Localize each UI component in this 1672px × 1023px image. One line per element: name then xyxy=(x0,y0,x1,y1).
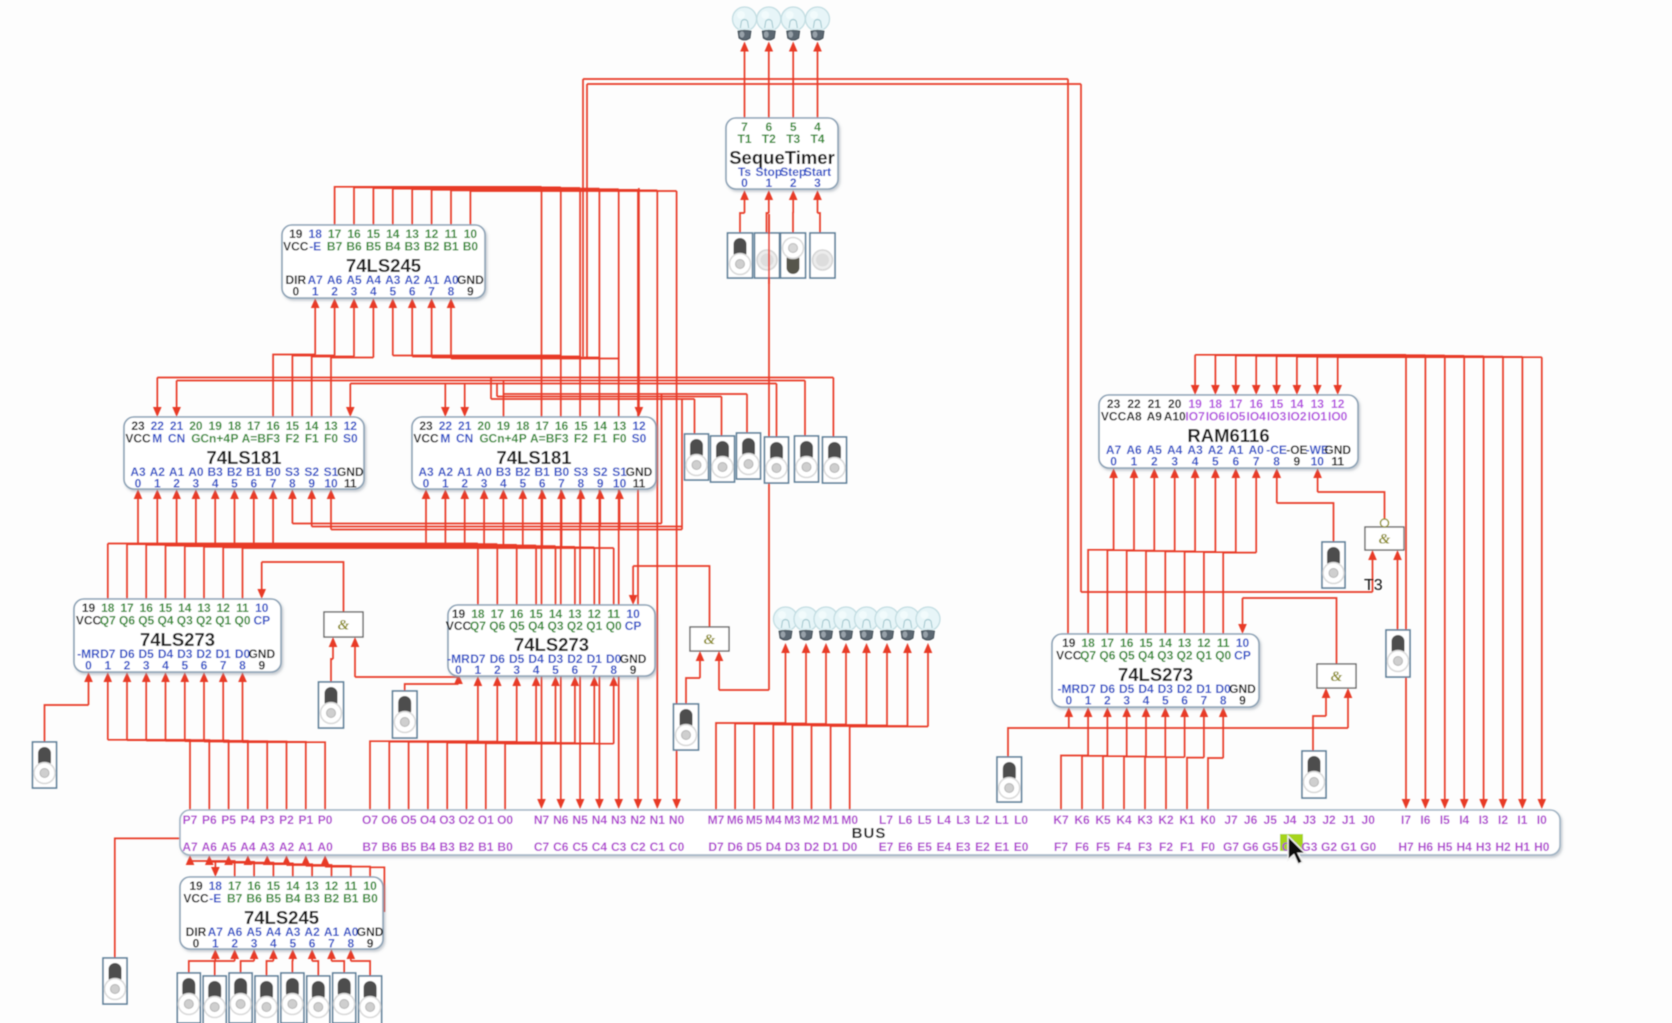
svg-text:7: 7 xyxy=(1201,694,1208,708)
svg-text:7: 7 xyxy=(428,285,435,299)
wire 245B B0 to bus A0 xyxy=(325,867,370,877)
svg-text:4: 4 xyxy=(1192,455,1199,469)
svg-text:IO7: IO7 xyxy=(1185,410,1205,424)
wire bus P4 to 273L D4 xyxy=(166,741,248,810)
switch data D1 xyxy=(333,973,356,1023)
switch 273R -MR xyxy=(997,757,1022,802)
wire switch to 245B A1 xyxy=(332,961,345,973)
bulb M6 xyxy=(794,607,818,640)
wire 273R Q7 to RAM A7 xyxy=(1088,550,1114,634)
switch data D4 xyxy=(255,976,278,1023)
wire RAM IO3 to bus I3 xyxy=(1277,355,1484,357)
wire Q band line 0 xyxy=(108,543,478,545)
svg-text:F0: F0 xyxy=(1201,840,1215,854)
svg-text:L3: L3 xyxy=(956,813,970,827)
wire Q band line 6 xyxy=(223,546,594,548)
switch Start xyxy=(810,233,835,278)
wire gamma feeder from beta xyxy=(503,381,505,418)
svg-text:Q0: Q0 xyxy=(606,619,622,633)
svg-text:F7: F7 xyxy=(1054,840,1068,854)
wire bus K2 to 273R D2 xyxy=(1166,757,1185,810)
wire 245B B4 to bus A4 xyxy=(248,863,293,877)
svg-text:M7: M7 xyxy=(708,813,725,827)
svg-text:O3: O3 xyxy=(439,813,455,827)
svg-text:M5: M5 xyxy=(746,813,763,827)
svg-text:G2: G2 xyxy=(1321,840,1337,854)
wire bus O4 to 273M D4 xyxy=(428,742,536,810)
chip 74LS181 U6 left xyxy=(124,417,364,491)
svg-text:Q0: Q0 xyxy=(234,614,250,628)
bulb T4 xyxy=(806,7,830,40)
wire B7 to bus N7 xyxy=(335,187,542,225)
wire 273R Q4 to RAM A4 xyxy=(1146,551,1175,634)
wire AND U3 output to 273R CP xyxy=(1243,598,1337,664)
bulb M3 xyxy=(855,607,879,640)
svg-text:H2: H2 xyxy=(1495,840,1511,854)
wire Q band line 2 xyxy=(146,544,517,546)
wire Stop switch long vertical overlay xyxy=(768,214,770,284)
svg-text:8: 8 xyxy=(610,663,617,677)
wire AND U2 output to 273M CP xyxy=(633,566,709,627)
svg-text:1: 1 xyxy=(765,176,772,190)
wire switch to 245B A5 xyxy=(241,961,255,973)
svg-text:B2: B2 xyxy=(324,892,340,906)
svg-text:E4: E4 xyxy=(937,840,952,854)
wire 273R Q0 to RAM A0 xyxy=(1223,553,1256,634)
wire T3 vertical right xyxy=(1080,84,1082,592)
wire control band line 2 xyxy=(177,380,805,382)
svg-text:3: 3 xyxy=(143,659,150,673)
bulb T1 xyxy=(733,7,757,40)
switch data D5 xyxy=(229,973,252,1023)
svg-text:C6: C6 xyxy=(553,840,569,854)
svg-text:Q7: Q7 xyxy=(1080,649,1096,663)
svg-text:T3: T3 xyxy=(1364,577,1383,594)
svg-text:Q1: Q1 xyxy=(215,614,231,628)
svg-text:C4: C4 xyxy=(592,840,608,854)
svg-text:7: 7 xyxy=(591,663,598,677)
svg-text:9: 9 xyxy=(630,663,637,677)
switch WE gate xyxy=(1386,630,1410,677)
svg-text:E1: E1 xyxy=(994,840,1009,854)
svg-text:H1: H1 xyxy=(1515,840,1531,854)
wire switch to 245B A3 xyxy=(291,961,293,973)
svg-text:Q7: Q7 xyxy=(100,614,116,628)
wire B1 to bus N1 xyxy=(451,190,657,225)
svg-text:J7: J7 xyxy=(1224,813,1238,827)
bus main xyxy=(180,810,1560,855)
svg-text:F0: F0 xyxy=(613,432,627,446)
wire Stop switch long vertical xyxy=(768,214,770,690)
svg-text:5: 5 xyxy=(1162,694,1169,708)
svg-text:A2: A2 xyxy=(279,840,295,854)
svg-text:Q2: Q2 xyxy=(567,619,583,633)
svg-text:6: 6 xyxy=(539,477,546,491)
svg-text:F3: F3 xyxy=(1138,840,1152,854)
wire gamma band line 1 xyxy=(504,393,748,395)
svg-text:B0: B0 xyxy=(362,892,378,906)
svg-text:M: M xyxy=(440,432,450,446)
svg-text:F4: F4 xyxy=(1117,840,1131,854)
wire gamma band line 3 xyxy=(490,378,492,400)
wire AND U1 output to 273L CP xyxy=(262,562,344,612)
svg-text:4: 4 xyxy=(1143,694,1150,708)
svg-text:4: 4 xyxy=(162,659,169,673)
svg-text:F1: F1 xyxy=(1180,840,1194,854)
wire T1 to bulb xyxy=(744,50,746,118)
svg-text:K1: K1 xyxy=(1179,813,1195,827)
wire Q band line 1 xyxy=(127,543,497,545)
svg-text:&: & xyxy=(704,632,716,648)
svg-text:0: 0 xyxy=(135,477,142,491)
svg-text:G6: G6 xyxy=(1243,840,1259,854)
wire S2 band xyxy=(312,526,682,528)
svg-text:F2: F2 xyxy=(574,432,588,446)
wire -CE from switch xyxy=(1277,503,1334,542)
svg-text:I7: I7 xyxy=(1401,813,1411,827)
svg-text:4: 4 xyxy=(500,477,507,491)
svg-text:D3: D3 xyxy=(785,840,801,854)
wire Ts/T-bus horizontal top xyxy=(583,78,1068,80)
svg-text:2: 2 xyxy=(1104,694,1111,708)
svg-text:M6: M6 xyxy=(727,813,744,827)
svg-text:Q3: Q3 xyxy=(1157,649,1173,663)
svg-text:-E: -E xyxy=(309,240,321,254)
chip 74LS273 U1 left xyxy=(74,599,281,673)
wire 273R Q2 to RAM A2 xyxy=(1185,552,1216,634)
wire bus K3 to 273R D3 xyxy=(1145,757,1165,810)
svg-text:F3: F3 xyxy=(554,432,568,446)
wire bus O6 to 273M D6 xyxy=(389,742,497,810)
bulb M1 xyxy=(896,607,920,640)
wire RAM IO2 to bus I2 xyxy=(1297,356,1503,358)
svg-text:K3: K3 xyxy=(1137,813,1153,827)
svg-text:4: 4 xyxy=(270,937,277,951)
bulb M0 xyxy=(916,607,940,640)
wire T2 to bulb xyxy=(768,50,770,118)
wire Q band line 7 xyxy=(243,547,614,549)
wire S feeder vertical a xyxy=(661,394,663,524)
svg-text:J0: J0 xyxy=(1362,813,1376,827)
svg-text:E5: E5 xyxy=(917,840,932,854)
switch CN control xyxy=(795,436,819,482)
svg-text:L4: L4 xyxy=(937,813,951,827)
svg-text:G1: G1 xyxy=(1341,840,1357,854)
svg-text:6: 6 xyxy=(1181,694,1188,708)
svg-text:T4: T4 xyxy=(810,132,824,146)
wire switch to SequeTimer pin 1 xyxy=(767,213,769,233)
wire vertical right to 74LS273 VCC xyxy=(1067,79,1069,636)
svg-text:6: 6 xyxy=(409,285,416,299)
wire AND U2 left input from switch xyxy=(686,678,700,704)
svg-text:8: 8 xyxy=(578,477,585,491)
and gate U4 nand xyxy=(1365,519,1404,550)
svg-text:M1: M1 xyxy=(822,813,839,827)
svg-text:P7: P7 xyxy=(183,813,198,827)
wire RAM IO7 to bus I7 xyxy=(1195,354,1406,356)
wire AND U1 left input from switch xyxy=(331,659,333,682)
svg-text:C7: C7 xyxy=(534,840,550,854)
wire AND U1 right input xyxy=(355,676,459,678)
switch data D0 xyxy=(359,976,382,1023)
svg-text:11: 11 xyxy=(344,477,357,491)
svg-text:A=B: A=B xyxy=(242,432,267,446)
svg-text:D1: D1 xyxy=(823,840,839,854)
svg-text:J4: J4 xyxy=(1283,813,1297,827)
bulb T2 xyxy=(757,7,781,40)
svg-text:K6: K6 xyxy=(1074,813,1090,827)
svg-text:1: 1 xyxy=(312,285,319,299)
wire 273M -MR from switch xyxy=(405,684,459,691)
wire B5 to bus N5 xyxy=(373,188,580,225)
svg-text:2: 2 xyxy=(173,477,180,491)
svg-text:C0: C0 xyxy=(669,840,685,854)
svg-text:8: 8 xyxy=(1273,455,1280,469)
svg-text:E0: E0 xyxy=(1014,840,1029,854)
wire RAM IO4 to bus I4 xyxy=(1256,355,1464,357)
svg-text:Q2: Q2 xyxy=(196,614,212,628)
svg-text:L5: L5 xyxy=(918,813,932,827)
bulb M4 xyxy=(834,607,858,640)
wire right F1 to 74LS245 A1 xyxy=(432,357,600,359)
wire bus M5 to bulb xyxy=(754,724,826,810)
wire arrow into 181R M xyxy=(444,384,446,409)
svg-text:2: 2 xyxy=(790,176,797,190)
chip 74LS245 U9 bottom xyxy=(180,877,384,951)
svg-text:B7: B7 xyxy=(362,840,378,854)
wire RAM IO6 to bus I6 xyxy=(1215,354,1425,356)
svg-text:S0: S0 xyxy=(343,432,358,446)
svg-text:H7: H7 xyxy=(1398,840,1414,854)
svg-text:7: 7 xyxy=(558,477,565,491)
switch -CE xyxy=(1322,542,1345,588)
svg-text:Q3: Q3 xyxy=(547,619,563,633)
wire bus M0 to bulb xyxy=(850,727,928,811)
svg-text:H0: H0 xyxy=(1534,840,1550,854)
svg-text:4: 4 xyxy=(533,663,540,677)
wire S feeder vertical b xyxy=(681,399,683,530)
svg-text:K5: K5 xyxy=(1095,813,1111,827)
wire arrow into 181R CN xyxy=(464,384,466,409)
svg-text:L0: L0 xyxy=(1014,813,1028,827)
wire 273R Q3 to RAM A3 xyxy=(1165,551,1195,634)
svg-text:K4: K4 xyxy=(1116,813,1132,827)
wire 273R Q5 to RAM A5 xyxy=(1127,551,1155,634)
svg-text:2: 2 xyxy=(231,937,238,951)
svg-text:O6: O6 xyxy=(381,813,397,827)
svg-text:B3: B3 xyxy=(440,840,456,854)
svg-text:9: 9 xyxy=(597,477,604,491)
svg-text:5: 5 xyxy=(231,477,238,491)
svg-text:A1: A1 xyxy=(298,840,314,854)
svg-text:8: 8 xyxy=(347,937,354,951)
wire RAM IO0 to bus I0 xyxy=(1338,356,1542,358)
wire bus P1 to 273L D1 xyxy=(223,742,306,810)
svg-text:F3: F3 xyxy=(266,432,280,446)
wire 245B B3 to bus A3 xyxy=(267,864,312,877)
svg-text:1: 1 xyxy=(475,663,482,677)
switch S control 2 xyxy=(711,436,735,482)
wire arrow into 273R -MR xyxy=(1068,716,1070,729)
svg-text:M: M xyxy=(152,432,162,446)
wire bus K7 to 273R D7 xyxy=(1061,756,1088,811)
svg-text:B7: B7 xyxy=(227,892,243,906)
svg-text:6: 6 xyxy=(309,937,316,951)
svg-text:C5: C5 xyxy=(572,840,588,854)
svg-text:H4: H4 xyxy=(1457,840,1473,854)
svg-text:9: 9 xyxy=(1239,694,1246,708)
svg-text:Cn+4: Cn+4 xyxy=(489,432,519,446)
svg-text:P2: P2 xyxy=(279,813,294,827)
switch M control xyxy=(765,437,789,483)
svg-text:Q5: Q5 xyxy=(509,619,525,633)
svg-text:O7: O7 xyxy=(362,813,378,827)
svg-text:2: 2 xyxy=(331,285,338,299)
chip 74LS273 U3 right xyxy=(1052,634,1259,708)
svg-text:B6: B6 xyxy=(382,840,398,854)
svg-text:8: 8 xyxy=(1220,694,1227,708)
svg-text:IO2: IO2 xyxy=(1287,410,1307,424)
svg-text:I3: I3 xyxy=(1479,813,1489,827)
wire right F0 to 74LS245 A0 xyxy=(451,358,619,360)
wire B3 to bus N3 xyxy=(412,189,619,225)
svg-text:IO4: IO4 xyxy=(1247,410,1267,424)
svg-text:M4: M4 xyxy=(765,813,782,827)
svg-text:1: 1 xyxy=(1131,455,1138,469)
svg-text:6: 6 xyxy=(572,663,579,677)
wire bus M4 to bulb xyxy=(773,725,846,811)
svg-text:J3: J3 xyxy=(1303,813,1317,827)
svg-text:B1: B1 xyxy=(343,892,359,906)
svg-text:&: & xyxy=(338,618,350,634)
svg-text:B7: B7 xyxy=(327,240,343,254)
svg-text:J1: J1 xyxy=(1342,813,1356,827)
svg-text:CP: CP xyxy=(1234,649,1251,663)
svg-text:B4: B4 xyxy=(385,240,401,254)
svg-text:A=B: A=B xyxy=(530,432,555,446)
svg-text:3: 3 xyxy=(814,176,821,190)
svg-text:3: 3 xyxy=(351,285,358,299)
wire AND U4 right input from switch xyxy=(1397,559,1399,631)
svg-text:1: 1 xyxy=(442,477,449,491)
switch data D6 xyxy=(203,976,226,1023)
wire arrow into 245B -E xyxy=(214,862,216,869)
wire bus P5 to 273L D5 xyxy=(146,741,228,811)
bulb M2 xyxy=(875,607,899,640)
wire switch to 245B A4 xyxy=(267,961,274,976)
switch 273L -MR xyxy=(33,742,57,788)
switch data D2 xyxy=(307,976,330,1023)
svg-text:P0: P0 xyxy=(318,813,333,827)
svg-text:F0: F0 xyxy=(324,432,338,446)
svg-text:N1: N1 xyxy=(650,813,666,827)
svg-text:D0: D0 xyxy=(842,840,858,854)
svg-text:L1: L1 xyxy=(995,813,1009,827)
wire arrow into 181R S0 xyxy=(638,188,640,409)
wire arrow into 181L CN xyxy=(176,381,178,409)
svg-text:5: 5 xyxy=(519,477,526,491)
wire vertical feeder left b xyxy=(586,84,588,358)
svg-text:2: 2 xyxy=(494,663,501,677)
switch CP U2 gate xyxy=(674,704,699,750)
svg-text:L2: L2 xyxy=(975,813,989,827)
svg-text:D4: D4 xyxy=(766,840,782,854)
chip 74LS273 U2 middle xyxy=(446,605,655,677)
svg-text:E2: E2 xyxy=(975,840,990,854)
svg-text:6: 6 xyxy=(201,659,208,673)
svg-text:H3: H3 xyxy=(1476,840,1492,854)
svg-text:VCC: VCC xyxy=(413,432,439,446)
wire bus O0 to 273M D0 xyxy=(505,744,614,810)
svg-text:O1: O1 xyxy=(478,813,494,827)
svg-text:G7: G7 xyxy=(1223,840,1239,854)
svg-text:K0: K0 xyxy=(1200,813,1216,827)
svg-text:T1: T1 xyxy=(737,132,751,146)
wire 273R Q6 to RAM A6 xyxy=(1107,550,1134,634)
svg-text:G: G xyxy=(479,432,488,446)
svg-text:VCC: VCC xyxy=(1101,410,1127,424)
svg-text:10: 10 xyxy=(1311,455,1325,469)
wire bus P7 to 273L D7 xyxy=(108,740,190,810)
svg-text:&: & xyxy=(1379,532,1391,548)
svg-text:T2: T2 xyxy=(762,132,776,146)
svg-text:O5: O5 xyxy=(401,813,417,827)
svg-text:G5: G5 xyxy=(1262,840,1278,854)
svg-text:0: 0 xyxy=(85,659,92,673)
svg-text:6: 6 xyxy=(250,477,257,491)
svg-text:3: 3 xyxy=(1123,694,1130,708)
svg-text:7: 7 xyxy=(1253,455,1260,469)
svg-text:Q3: Q3 xyxy=(177,614,193,628)
wire bus K5 to 273R D5 xyxy=(1103,756,1127,810)
svg-text:Q5: Q5 xyxy=(1119,649,1135,663)
and gate U2 xyxy=(690,627,729,651)
wire bus M1 to bulb xyxy=(831,726,908,810)
svg-text:Q4: Q4 xyxy=(157,614,173,628)
wire bus P0 to 273L D0 xyxy=(243,742,326,810)
svg-text:VCC: VCC xyxy=(1056,649,1082,663)
wire 245B B7 to bus A7 xyxy=(190,861,235,877)
svg-text:IO5: IO5 xyxy=(1226,410,1246,424)
svg-text:3: 3 xyxy=(251,937,258,951)
wire 245B B2 to bus A2 xyxy=(287,865,332,877)
wire right F2 to 74LS245 A2 xyxy=(412,356,580,358)
bulb M5 xyxy=(814,607,838,640)
svg-text:7: 7 xyxy=(328,937,335,951)
svg-text:Q5: Q5 xyxy=(138,614,154,628)
svg-text:I5: I5 xyxy=(1440,813,1450,827)
svg-text:N3: N3 xyxy=(611,813,627,827)
svg-text:K2: K2 xyxy=(1158,813,1174,827)
svg-text:B3: B3 xyxy=(405,240,421,254)
svg-text:I4: I4 xyxy=(1459,813,1469,827)
switch Ts xyxy=(728,233,753,278)
svg-text:C1: C1 xyxy=(650,840,666,854)
chip SequeTimer U10 xyxy=(726,118,838,190)
svg-text:0: 0 xyxy=(292,285,299,299)
svg-text:8: 8 xyxy=(289,477,296,491)
svg-text:G: G xyxy=(191,432,200,446)
wire T3 to bulb xyxy=(792,50,794,118)
svg-text:10: 10 xyxy=(324,477,338,491)
svg-text:9: 9 xyxy=(308,477,315,491)
wire F1 to 74LS245 A5 xyxy=(312,357,354,418)
svg-text:4: 4 xyxy=(370,285,377,299)
wire gamma band line 2 xyxy=(496,384,498,397)
svg-text:A10: A10 xyxy=(1164,410,1186,424)
svg-text:F6: F6 xyxy=(1075,840,1089,854)
switch S0 control xyxy=(823,437,847,483)
